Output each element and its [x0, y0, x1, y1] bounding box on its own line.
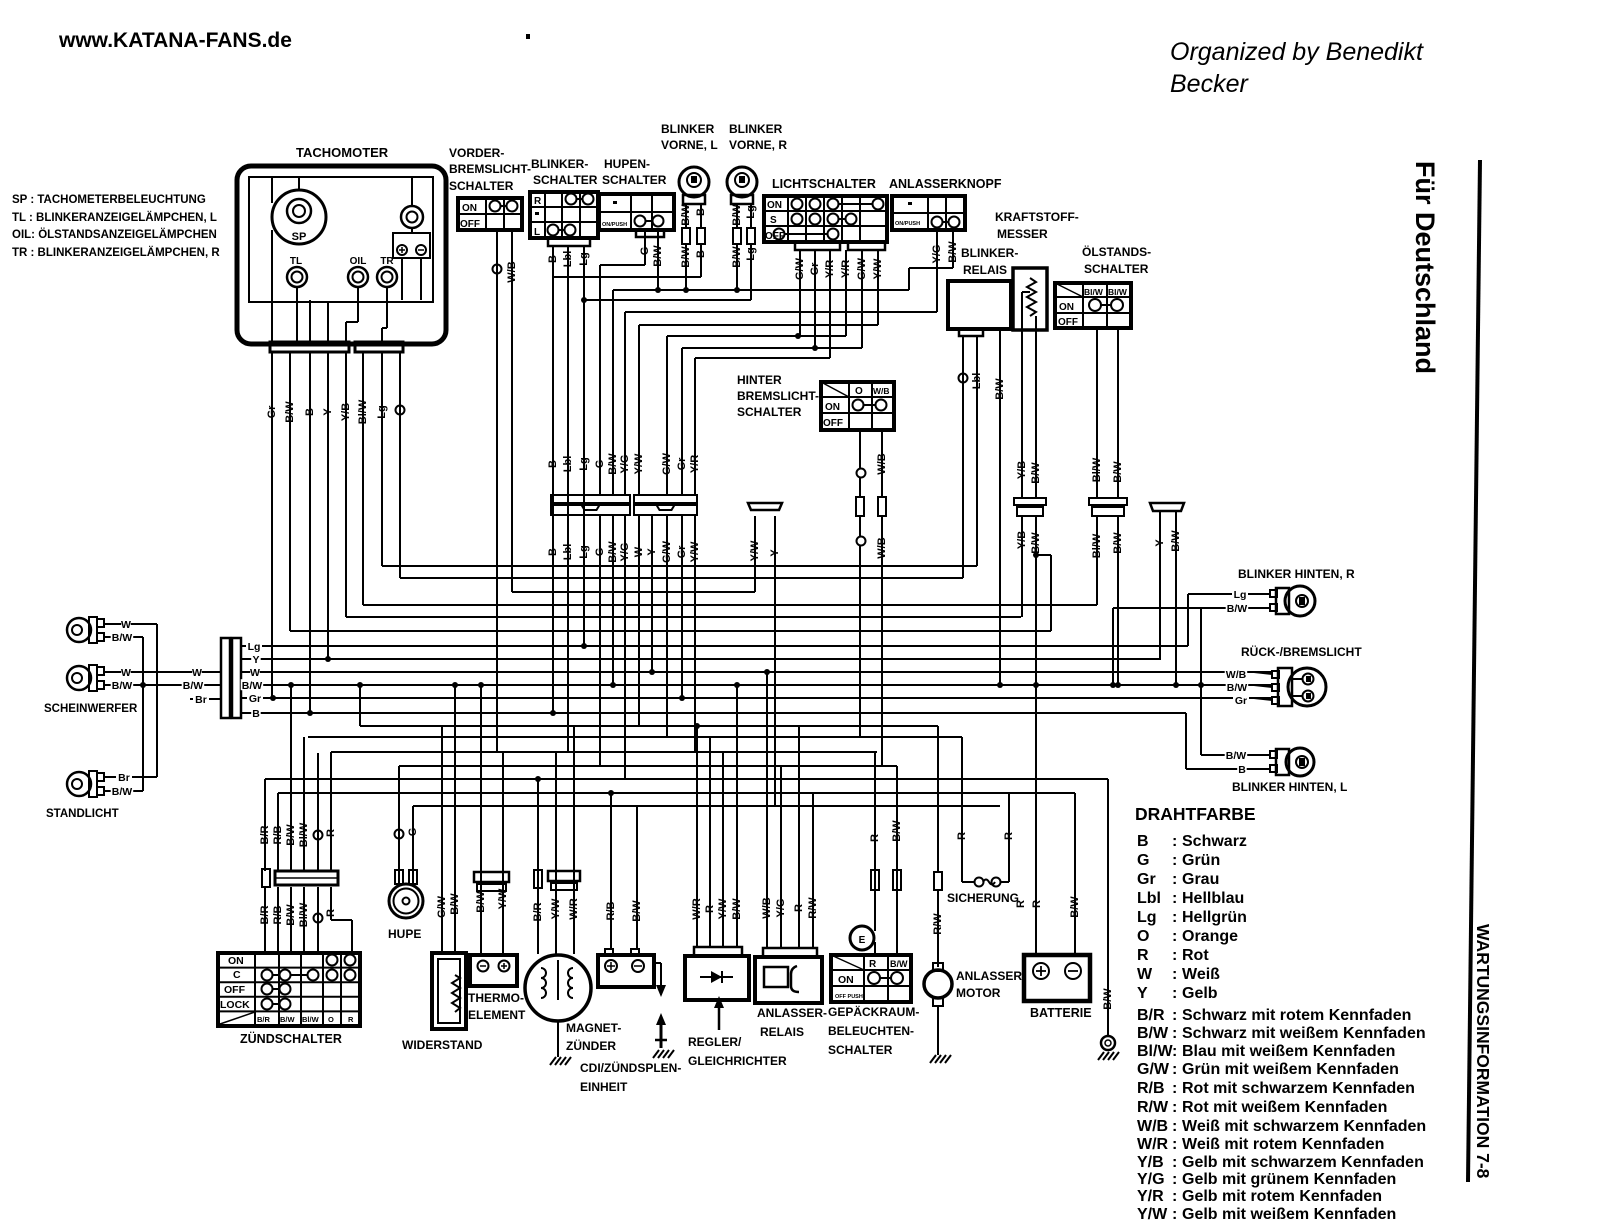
switch LICHTSCHALTER	[764, 177, 887, 250]
svg-text:B/W: B/W	[112, 786, 133, 798]
svg-text:BLINKER HINTEN, L: BLINKER HINTEN, L	[1232, 780, 1347, 794]
harness connector small Y	[748, 503, 782, 510]
svg-text:Y: Y	[252, 654, 259, 666]
ground cdi	[653, 1050, 659, 1058]
svg-text:R/B: R/B	[605, 901, 617, 920]
svg-text:SP: SP	[292, 231, 307, 243]
svg-text:Lg: Lg	[248, 641, 261, 653]
svg-text:B/W: B/W	[475, 891, 487, 913]
mesh line y779	[265, 778, 1108, 780]
svg-text:Rot: Rot	[1182, 947, 1209, 964]
connector bar labels below	[547, 540, 781, 563]
svg-text::: :	[1172, 871, 1177, 888]
svg-text:BATTERIE: BATTERIE	[1030, 1006, 1092, 1020]
svg-text:W/B: W/B	[1137, 1118, 1168, 1135]
svg-text:BELEUCHTEN-: BELEUCHTEN-	[828, 1024, 914, 1038]
luggage light switch	[831, 752, 911, 1002]
mesh line y617	[346, 616, 1021, 618]
svg-text:G/W: G/W	[1137, 1061, 1170, 1078]
connector bar labels above	[547, 452, 701, 475]
svg-text:ANLASSER-: ANLASSER-	[757, 1006, 827, 1020]
svg-text:WARTUNGSINFORMATION 7-8: WARTUNGSINFORMATION 7-8	[1473, 924, 1493, 1179]
svg-text:Gelb: Gelb	[1182, 985, 1218, 1002]
svg-text:B/W: B/W	[1102, 988, 1114, 1010]
svg-text:GEPÄCKRAUM-: GEPÄCKRAUM-	[828, 1004, 919, 1019]
svg-text:Y/G: Y/G	[775, 899, 787, 918]
label ANLASSER-RELAIS	[757, 1006, 827, 1039]
tachometer bulb	[401, 206, 423, 228]
svg-text:BLINKER-: BLINKER-	[531, 157, 588, 171]
svg-text::: :	[1172, 1080, 1177, 1097]
svg-text:ON: ON	[1059, 302, 1074, 313]
svg-text::: :	[1172, 852, 1177, 869]
tachometer drop wires	[270, 352, 405, 716]
svg-text:ANLASSERKNOPF: ANLASSERKNOPF	[889, 177, 1002, 191]
svg-text:KRAFTSTOFF-: KRAFTSTOFF-	[995, 210, 1079, 224]
headlight bulb 2	[67, 665, 104, 691]
headlight wires	[104, 618, 221, 798]
svg-text::: :	[1172, 890, 1177, 907]
svg-text:B/W: B/W	[1227, 682, 1248, 694]
svg-text:B/W: B/W	[280, 1015, 296, 1024]
staircase wire G	[600, 237, 645, 495]
front turn signal drops	[682, 204, 755, 300]
mesh line y631	[290, 630, 1051, 632]
svg-text:ON: ON	[825, 402, 840, 413]
headlight bulb 1	[67, 617, 104, 643]
svg-text:OFF: OFF	[224, 984, 246, 996]
svg-text:R: R	[1031, 900, 1043, 908]
starter relay	[755, 669, 822, 1003]
svg-text:R: R	[1137, 947, 1149, 964]
svg-text:LICHTSCHALTER: LICHTSCHALTER	[772, 177, 876, 191]
rear turn signal bulb L	[1270, 748, 1314, 776]
svg-text:ON/PUSH: ON/PUSH	[895, 221, 920, 227]
mesh line y726	[360, 725, 938, 727]
svg-text:W: W	[192, 667, 202, 679]
turn signal BLINKER VORNE L	[661, 122, 718, 204]
battery	[1015, 793, 1090, 1001]
label GEPAECKRAUM-BELEUCHTEN-SCHALTER	[828, 1004, 919, 1057]
svg-text:Lg: Lg	[1234, 589, 1247, 601]
svg-text:Gr: Gr	[249, 693, 261, 705]
starter button link row268	[909, 230, 953, 290]
svg-text:R: R	[956, 832, 968, 840]
svg-text:ON: ON	[228, 955, 244, 967]
switch OELSTANDS-SCHALTER	[1055, 244, 1151, 328]
svg-text:DRAHTFARBE: DRAHTFARBE	[1135, 804, 1256, 824]
svg-text:Lg: Lg	[1137, 909, 1157, 926]
lamp OIL	[348, 256, 368, 287]
svg-text:W: W	[121, 619, 131, 631]
svg-text:Rot mit schwarzem Kennfaden: Rot mit schwarzem Kennfaden	[1182, 1080, 1415, 1097]
svg-text:Y/G: Y/G	[1137, 1171, 1165, 1188]
svg-text:CDI/ZÜNDSPLEN-: CDI/ZÜNDSPLEN-	[580, 1060, 681, 1075]
svg-text:SCHALTER: SCHALTER	[737, 405, 802, 419]
svg-text::: :	[1172, 1025, 1177, 1042]
staircase wire Y/W row325	[639, 325, 878, 495]
svg-text::: :	[1172, 1171, 1177, 1188]
svg-text:B/R: B/R	[257, 1015, 271, 1024]
legend DRAHTFARBE entries	[1137, 833, 1426, 1223]
horn switch wire labels	[639, 245, 664, 267]
svg-text:B/R: B/R	[1137, 1007, 1165, 1024]
regulator rectifier	[685, 682, 749, 1030]
svg-text:Bl/W: Bl/W	[302, 1015, 320, 1024]
svg-text:W/R: W/R	[691, 898, 703, 919]
ignition switch ZUENDSCHALTER	[218, 953, 360, 1026]
svg-text:VORNE, R: VORNE, R	[729, 138, 787, 152]
svg-text:Gr: Gr	[1235, 695, 1247, 707]
svg-text::: :	[1172, 1154, 1177, 1171]
svg-text:VORDER-: VORDER-	[449, 146, 504, 160]
front brake switch drops	[497, 230, 512, 752]
svg-text:ON: ON	[767, 200, 782, 211]
svg-text:R: R	[1003, 832, 1015, 840]
svg-text:www.KATANA-FANS.de: www.KATANA-FANS.de	[58, 29, 292, 52]
svg-text:RÜCK-/BREMSLICHT: RÜCK-/BREMSLICHT	[1241, 644, 1362, 659]
svg-text:Becker: Becker	[1170, 70, 1249, 98]
svg-text:C: C	[233, 969, 241, 981]
label MAGNET-ZUENDER	[566, 1021, 621, 1053]
svg-text:R/W: R/W	[932, 913, 944, 935]
lamp TL	[287, 256, 307, 287]
harness below-bar drops	[600, 516, 695, 779]
svg-text:O: O	[1137, 928, 1149, 945]
magneto MAGNET-ZUENDER	[525, 726, 591, 1057]
page rule line	[1468, 160, 1480, 1182]
svg-text:Weiß mit schwarzem Kennfaden: Weiß mit schwarzem Kennfaden	[1182, 1118, 1426, 1135]
svg-text:MOTOR: MOTOR	[956, 986, 1001, 1000]
rear bulb connection wires	[1110, 588, 1272, 776]
mesh line y766	[399, 765, 897, 767]
svg-text:Y/B: Y/B	[1137, 1154, 1164, 1171]
mesh line y605	[363, 604, 1097, 606]
oil switch wire labels	[1091, 457, 1124, 558]
switch HUPEN-SCHALTER	[599, 157, 674, 237]
svg-text:ANLASSER-: ANLASSER-	[956, 969, 1026, 983]
blinker switch wire labels	[547, 251, 590, 268]
svg-text::: :	[1172, 1043, 1177, 1060]
svg-text:OIL: OIL	[350, 256, 367, 267]
bus line Y	[241, 658, 1161, 660]
svg-text:BREMSLICHT-: BREMSLICHT-	[737, 389, 819, 403]
svg-text:HUPE: HUPE	[388, 927, 421, 941]
svg-text:OFF: OFF	[460, 219, 480, 230]
svg-text:HINTER: HINTER	[737, 373, 782, 387]
right small connector labels	[1154, 530, 1182, 552]
svg-text:ELEMENT: ELEMENT	[468, 1008, 526, 1022]
relay BLINKER-RELAIS	[948, 246, 1018, 336]
svg-text:B: B	[252, 708, 260, 720]
mesh line y793	[278, 792, 1075, 794]
svg-text:MESSER: MESSER	[997, 227, 1048, 241]
svg-text::: :	[1172, 947, 1177, 964]
svg-text:B: B	[1238, 764, 1246, 776]
svg-text:B/R: B/R	[259, 825, 271, 844]
svg-text:Hellblau: Hellblau	[1182, 890, 1244, 907]
ground magneto	[550, 1057, 556, 1065]
svg-text:SCHEINWERFER: SCHEINWERFER	[44, 703, 138, 715]
staircase wire Lg row300	[581, 297, 751, 303]
svg-text:R/B: R/B	[272, 825, 284, 844]
staircase wire G/W row336	[667, 250, 846, 495]
harness connector bar 1	[551, 495, 630, 515]
svg-text:B/W: B/W	[285, 824, 297, 846]
lamp SP	[272, 190, 326, 244]
svg-text:B/W: B/W	[1069, 896, 1081, 918]
svg-text:Orange: Orange	[1182, 928, 1238, 945]
standlicht bulb	[67, 771, 104, 797]
ignition switch riser wires	[259, 682, 337, 927]
svg-text:B/W: B/W	[183, 680, 204, 692]
svg-text:B/W: B/W	[112, 632, 133, 644]
svg-text:TL : BLINKERANZEIGELÄMPCHEN, L: TL : BLINKERANZEIGELÄMPCHEN, L	[12, 211, 217, 224]
svg-text::: :	[1172, 1188, 1177, 1205]
svg-text::: :	[1172, 928, 1177, 945]
svg-text:ZÜNDER: ZÜNDER	[566, 1038, 616, 1053]
svg-text:R: R	[348, 1015, 354, 1024]
svg-text:O: O	[328, 1015, 334, 1024]
fuse SICHERUNG	[956, 737, 1015, 887]
svg-text:OFF: OFF	[1058, 317, 1078, 328]
svg-text:Weiß: Weiß	[1182, 966, 1220, 983]
svg-text:ÖLSTANDS-: ÖLSTANDS-	[1082, 244, 1151, 259]
harness connector bar 2	[634, 495, 697, 515]
svg-text:B/W: B/W	[242, 680, 263, 692]
switch ANLASSERKNOPF	[889, 177, 1002, 230]
svg-text:R: R	[1015, 900, 1027, 908]
fuel gauge wire labels	[1016, 461, 1042, 554]
svg-text:B/W: B/W	[890, 959, 908, 969]
svg-text:Hellgrün: Hellgrün	[1182, 909, 1247, 926]
staircase wire B/W row290	[613, 237, 909, 495]
svg-text:G: G	[1137, 852, 1149, 869]
blinker relay wire labels	[959, 373, 1006, 400]
switch BLINKER-SCHALTER	[530, 157, 598, 246]
svg-text:R/W: R/W	[1137, 1099, 1169, 1116]
svg-text:Bl/W: Bl/W	[1084, 287, 1104, 297]
svg-text:THERMO-: THERMO-	[468, 991, 524, 1005]
front brake switch wire labels	[493, 261, 518, 282]
tachometer unit	[237, 145, 446, 352]
mesh line y752	[331, 751, 877, 753]
bus line W	[241, 671, 1272, 673]
svg-text:STANDLICHT: STANDLICHT	[46, 808, 119, 820]
svg-text:B/R: B/R	[532, 902, 544, 921]
thermo element	[470, 682, 517, 986]
svg-text:R/B: R/B	[1137, 1080, 1165, 1097]
fuel gauge KRAFTSTOFF-MESSER	[995, 210, 1079, 330]
label THERMO-ELEMENT	[468, 991, 526, 1022]
svg-text:MAGNET-: MAGNET-	[566, 1021, 621, 1035]
svg-text::: :	[1172, 1206, 1177, 1223]
credit Organized by Benedikt Becker	[1170, 38, 1424, 98]
connector pair oelstand	[1089, 498, 1127, 516]
mesh line y737	[308, 736, 962, 738]
svg-text:B/W: B/W	[631, 900, 643, 922]
svg-text:SP : TACHOMETERBELEUCHTUNG: SP : TACHOMETERBELEUCHTUNG	[12, 194, 206, 206]
connector trapezoid right	[1150, 503, 1184, 511]
ignition switch connector bar	[262, 869, 338, 887]
bus line Gr	[241, 697, 1272, 699]
mesh line y592	[512, 591, 755, 593]
front turn signal wire labels	[680, 204, 757, 268]
rear brake switch drops	[856, 430, 886, 766]
ground wire B/W right	[1101, 779, 1115, 1050]
svg-text:W/B: W/B	[1226, 669, 1247, 681]
lamp TR	[377, 256, 397, 287]
svg-text:B/W: B/W	[112, 680, 133, 692]
svg-text:Grün: Grün	[1182, 852, 1220, 869]
staircase wire Gr row348	[682, 250, 862, 495]
svg-text:SCHALTER: SCHALTER	[828, 1043, 893, 1057]
staircase wire Y/G row312	[625, 230, 937, 495]
cdi unit box	[598, 790, 667, 1048]
svg-text:B/W: B/W	[1227, 603, 1248, 615]
svg-text:SICHERUNG: SICHERUNG	[947, 891, 1019, 905]
svg-text:Y: Y	[1137, 985, 1148, 1002]
svg-text:Gelb mit weißem Kennfaden: Gelb mit weißem Kennfaden	[1182, 1206, 1396, 1223]
svg-text:Schwarz mit weißem Kennfaden: Schwarz mit weißem Kennfaden	[1182, 1025, 1426, 1042]
svg-text:TACHOMOTER: TACHOMOTER	[296, 145, 389, 160]
svg-text:ON/PUSH: ON/PUSH	[602, 222, 627, 228]
tachometer terminal block	[393, 233, 430, 258]
svg-text:R/W: R/W	[807, 897, 819, 919]
svg-text:W: W	[121, 667, 131, 679]
legend SP TL OIL TR	[12, 194, 220, 259]
blinker switch drops	[550, 246, 587, 752]
svg-text:Y/W: Y/W	[1137, 1206, 1168, 1223]
svg-text:TL: TL	[290, 256, 302, 267]
label CDI/ZUENDSPLEN-EINHEIT	[580, 1060, 681, 1094]
svg-text:R: R	[325, 829, 337, 837]
svg-text::: :	[1172, 1099, 1177, 1116]
light switch wire labels	[794, 257, 884, 280]
svg-text::: :	[1172, 966, 1177, 983]
svg-text:W: W	[250, 667, 260, 679]
svg-text:RELAIS: RELAIS	[760, 1025, 804, 1039]
svg-text:Grün mit weißem Kennfaden: Grün mit weißem Kennfaden	[1182, 1061, 1399, 1078]
svg-text::: :	[1172, 1118, 1177, 1135]
svg-text:R: R	[793, 904, 805, 912]
svg-text:Für Deutschland: Für Deutschland	[1410, 161, 1440, 374]
svg-text:OFF: OFF	[823, 418, 843, 429]
svg-text:G: G	[407, 828, 419, 837]
svg-text:Grau: Grau	[1182, 871, 1219, 888]
tail brake light bulb	[1272, 668, 1326, 706]
svg-text:R: R	[704, 905, 716, 913]
svg-text:SCHALTER: SCHALTER	[1084, 262, 1149, 276]
svg-text:WIDERSTAND: WIDERSTAND	[402, 1038, 483, 1052]
svg-text:Rot mit weißem Kennfaden: Rot mit weißem Kennfaden	[1182, 1099, 1387, 1116]
rear turn signal bulb R	[1270, 586, 1315, 616]
svg-text:Br: Br	[195, 694, 207, 706]
svg-text::: :	[1172, 909, 1177, 926]
svg-text:LOCK: LOCK	[220, 999, 250, 1011]
svg-text:B/W: B/W	[731, 898, 743, 920]
svg-text:B/W: B/W	[891, 820, 903, 842]
svg-text:Y/R: Y/R	[1137, 1188, 1164, 1205]
svg-text::: :	[1172, 1007, 1177, 1024]
svg-text:ZÜNDSCHALTER: ZÜNDSCHALTER	[240, 1031, 342, 1046]
svg-text:S: S	[770, 215, 777, 226]
oil switch drops	[1097, 328, 1121, 688]
svg-text:Schwarz mit rotem Kennfaden: Schwarz mit rotem Kennfaden	[1182, 1007, 1411, 1024]
svg-text:B/W: B/W	[449, 893, 461, 915]
svg-text:R: R	[869, 834, 881, 842]
svg-text:EINHEIT: EINHEIT	[580, 1080, 628, 1094]
svg-text:G/W: G/W	[436, 895, 448, 918]
svg-text:BLINKER-: BLINKER-	[961, 246, 1018, 260]
ground right	[1098, 1052, 1104, 1060]
svg-text:OFF PUSH: OFF PUSH	[835, 994, 863, 1000]
svg-text:ON: ON	[838, 974, 854, 986]
starter button wire labels	[931, 241, 959, 264]
svg-text:ON: ON	[462, 203, 477, 214]
svg-text:Schwarz: Schwarz	[1182, 833, 1247, 850]
bus line Lg	[241, 645, 1188, 647]
staircase wire B row277	[553, 244, 701, 277]
tachometer output wire labels	[266, 399, 388, 424]
svg-text:OIL: ÖLSTANDSANZEIGELÄMPCHEN: OIL: ÖLSTANDSANZEIGELÄMPCHEN	[12, 228, 217, 241]
svg-text:Gelb mit schwarzem Kennfaden: Gelb mit schwarzem Kennfaden	[1182, 1154, 1424, 1171]
svg-text:Blau mit weißem Kennfaden: Blau mit weißem Kennfaden	[1182, 1043, 1395, 1060]
svg-text:BLINKER: BLINKER	[729, 122, 783, 136]
main harness connector	[221, 638, 241, 718]
svg-text:W/R: W/R	[1137, 1136, 1169, 1153]
connector right labels	[241, 640, 264, 720]
svg-text:Bl/W: Bl/W	[1137, 1043, 1173, 1060]
switch VORDER-BREMSLICHT-SCHALTER	[449, 146, 531, 230]
bus line B/W	[241, 684, 1272, 686]
ground starter motor	[930, 1055, 936, 1063]
label ANLASSER-MOTOR	[956, 969, 1026, 1000]
svg-text::: :	[1172, 1061, 1177, 1078]
svg-text:B: B	[1137, 833, 1149, 850]
svg-text:Gelb mit rotem Kennfaden: Gelb mit rotem Kennfaden	[1182, 1188, 1382, 1205]
label REGLER/GLEICHRICHTER	[688, 1035, 787, 1068]
svg-text:Br: Br	[118, 772, 130, 784]
fuel gauge drops	[1022, 330, 1051, 955]
right connector drops	[755, 511, 1179, 806]
svg-text:GLEICHRICHTER: GLEICHRICHTER	[688, 1054, 787, 1068]
switch HINTER BREMSLICHT-SCHALTER	[737, 373, 894, 430]
svg-text:BLINKER HINTEN, R: BLINKER HINTEN, R	[1238, 567, 1355, 581]
svg-text:REGLER/: REGLER/	[688, 1035, 742, 1049]
svg-text:Bl/W: Bl/W	[298, 822, 310, 847]
svg-text:Gelb mit grünem Kennfaden: Gelb mit grünem Kennfaden	[1182, 1171, 1396, 1188]
svg-text:Organized by Benedikt: Organized by Benedikt	[1170, 38, 1424, 66]
starter motor	[924, 726, 952, 1055]
svg-text:W: W	[1137, 966, 1153, 983]
svg-text:HUPEN-: HUPEN-	[604, 157, 650, 171]
svg-text:TR : BLINKERANZEIGELÄMPCHEN, R: TR : BLINKERANZEIGELÄMPCHEN, R	[12, 246, 220, 259]
svg-text:Bl/W: Bl/W	[1108, 287, 1128, 297]
horn HUPE	[389, 766, 423, 918]
svg-text:Lbl: Lbl	[1137, 890, 1161, 907]
svg-text::: :	[1172, 833, 1177, 850]
svg-text:VORNE, L: VORNE, L	[661, 138, 718, 152]
mesh line y566	[382, 565, 977, 567]
svg-text:Weiß mit rotem Kennfaden: Weiß mit rotem Kennfaden	[1182, 1136, 1384, 1153]
svg-text:W/B: W/B	[761, 897, 773, 918]
svg-text:L: L	[534, 227, 540, 238]
svg-text:SCHALTER: SCHALTER	[449, 179, 514, 193]
turn signal BLINKER VORNE R	[727, 122, 787, 204]
svg-text::: :	[1172, 985, 1177, 1002]
svg-text:Y/W: Y/W	[550, 898, 562, 919]
